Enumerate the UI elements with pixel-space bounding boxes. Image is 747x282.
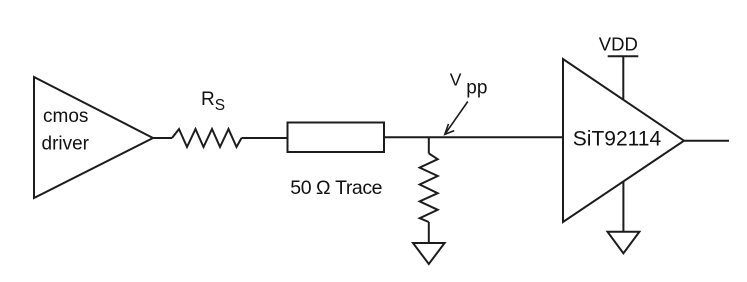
svg-text:cmos: cmos bbox=[43, 106, 88, 127]
label 50 Ω Trace bbox=[290, 177, 382, 199]
svg-text:driver: driver bbox=[42, 134, 90, 155]
wire: trace to SiT92114 input (node Vpp) bbox=[384, 136, 563, 138]
wire: RS to 50 ohm trace bbox=[242, 137, 288, 139]
Vpp arrowhead bbox=[445, 124, 454, 134]
ground stem wire (SiT92114) bbox=[622, 182, 624, 232]
resistor RS zigzag bbox=[172, 129, 242, 147]
svg-text:V: V bbox=[450, 70, 462, 90]
VDD stem wire bbox=[622, 56, 624, 100]
label SiT92114 bbox=[573, 128, 662, 151]
shunt resistor top lead bbox=[428, 137, 430, 153]
svg-text:SiT92114: SiT92114 bbox=[573, 128, 662, 151]
wire: cmos apex to resistor RS bbox=[153, 137, 172, 139]
shunt resistor zigzag bbox=[420, 153, 438, 222]
label RS bbox=[201, 89, 225, 114]
label cmos bbox=[43, 106, 88, 127]
cmos driver buffer triangle bbox=[34, 77, 153, 198]
svg-text:50 Ω Trace: 50 Ω Trace bbox=[290, 177, 382, 199]
ground symbol (shunt resistor) bbox=[413, 243, 445, 264]
label driver bbox=[42, 134, 90, 155]
buffer U1 SiT92114 triangle bbox=[563, 59, 684, 222]
svg-text:VDD: VDD bbox=[599, 34, 638, 55]
label node Vpp bbox=[450, 70, 462, 90]
svg-text:RS: RS bbox=[201, 89, 225, 114]
svg-text:pp: pp bbox=[466, 78, 487, 99]
Vpp arrow shaft bbox=[445, 102, 468, 134]
50 ohm trace transmission line box bbox=[288, 123, 385, 153]
shunt resistor bottom lead bbox=[428, 222, 430, 243]
VDD power bar bbox=[608, 55, 639, 57]
label VDD bbox=[599, 34, 638, 55]
output wire bbox=[684, 140, 729, 142]
ground symbol (SiT92114) bbox=[608, 232, 640, 254]
